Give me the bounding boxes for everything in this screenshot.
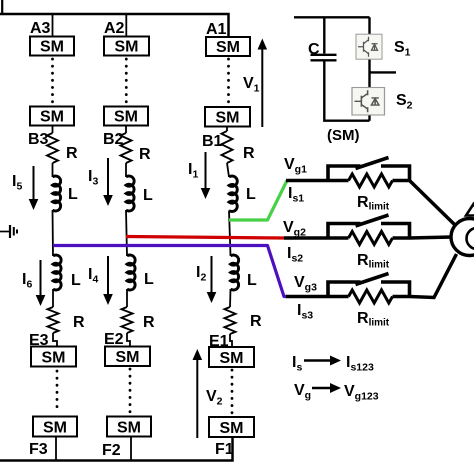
svg-text:SM: SM — [220, 420, 244, 437]
svg-text:I5: I5 — [12, 173, 22, 193]
svg-text:I1: I1 — [188, 161, 198, 181]
dotted chain E3-F3 — [56, 371, 59, 413]
svg-text:L: L — [68, 186, 78, 203]
svg-text:L: L — [144, 271, 154, 288]
current arrow I4 — [107, 256, 109, 296]
submodule SM B2 — [104, 107, 148, 126]
submodule SM E1 — [209, 347, 254, 367]
wire R to L arm1 — [227, 163, 229, 177]
top DC bus — [0, 14, 229, 37]
svg-text:SM: SM — [42, 349, 66, 366]
svg-text:Rlimit: Rlimit — [357, 252, 390, 271]
svg-text:Is123: Is123 — [346, 354, 374, 374]
svg-text:SM: SM — [117, 419, 141, 436]
wire R to E3 — [53, 333, 57, 347]
svg-text:E2: E2 — [104, 331, 124, 348]
wire F2 to bus — [130, 437, 132, 461]
wire A3 drop — [52, 14, 54, 37]
branch3 wire — [286, 254, 457, 298]
svg-text:A2: A2 — [104, 20, 125, 37]
resistor R upper arm3 — [47, 133, 58, 163]
inductor L upper arm2 — [126, 176, 134, 211]
svg-text:R: R — [139, 146, 151, 163]
svg-text:SM: SM — [220, 350, 244, 367]
current arrow I2 — [211, 256, 213, 294]
wire R to L arm3 — [52, 163, 54, 177]
current arrow I1 — [205, 152, 207, 190]
svg-text:A1: A1 — [206, 21, 227, 38]
svg-text:SM: SM — [40, 38, 64, 55]
wire F3 to bus — [55, 437, 57, 461]
IGBT switch S1 — [356, 34, 382, 59]
svg-text:F3: F3 — [29, 441, 48, 458]
wire arm3 midpoint — [52, 210, 55, 256]
svg-text:R: R — [143, 314, 155, 331]
bypass switch S branch1 — [328, 166, 361, 181]
SM detail right leg wires — [368, 17, 370, 120]
svg-text:L: L — [247, 272, 257, 289]
svg-text:Vg: Vg — [294, 382, 311, 402]
wire R to E2 — [127, 333, 130, 347]
phase wire red (arm2 tap to Vg2 node) — [126, 237, 284, 239]
svg-text:Is: Is — [292, 354, 302, 374]
voltage arrow V2 — [196, 358, 198, 438]
svg-text:R: R — [243, 145, 255, 162]
svg-text:F2: F2 — [102, 442, 121, 459]
submodule SM F2 — [107, 417, 151, 437]
submodule SM E2 — [105, 347, 150, 367]
resistor Rlimit branch2 — [349, 232, 393, 245]
machine outer circle — [451, 219, 474, 256]
svg-text:V1: V1 — [243, 75, 260, 95]
dotted chain A2-B2 — [125, 59, 128, 104]
svg-text:Vg1: Vg1 — [284, 156, 307, 176]
svg-text:Vg2: Vg2 — [283, 219, 306, 239]
dotted chain E1-F1 — [231, 370, 234, 414]
svg-text:L: L — [246, 186, 256, 203]
inductor L lower arm1 — [231, 255, 239, 290]
submodule SM A3 — [30, 37, 74, 56]
resistor R lower arm3 — [48, 307, 59, 333]
svg-text:R: R — [250, 313, 262, 330]
wire L to R lower arm1 — [229, 289, 232, 307]
dotted chain E2-F2 — [129, 369, 132, 413]
svg-text:R: R — [66, 145, 78, 162]
branch1 wire — [286, 181, 455, 225]
svg-text:S1: S1 — [394, 39, 411, 59]
resistor Rlimit branch1 — [349, 174, 393, 187]
inductor L lower arm3 — [53, 255, 61, 290]
resistor R lower arm2 — [122, 307, 133, 333]
svg-text:Is2: Is2 — [287, 245, 303, 265]
current arrow I6 — [40, 260, 42, 297]
bypass switch S branch2 — [328, 224, 361, 239]
inductor L upper arm1 — [229, 176, 237, 212]
svg-text:I2: I2 — [196, 264, 206, 284]
svg-text:SM: SM — [43, 419, 67, 436]
wire R to L arm2 — [125, 163, 127, 177]
svg-text:S2: S2 — [396, 92, 413, 112]
IGBT switch S2 — [352, 88, 385, 116]
submodule SM B1 — [205, 107, 250, 127]
wire R to E1 — [230, 334, 232, 347]
svg-text:Is1: Is1 — [288, 185, 304, 205]
svg-text:L: L — [143, 187, 153, 204]
svg-text:A3: A3 — [30, 20, 51, 37]
svg-text:I3: I3 — [88, 168, 98, 188]
bottom DC bus — [0, 437, 233, 461]
svg-text:F1: F1 — [215, 441, 234, 458]
svg-text:L: L — [71, 272, 81, 289]
svg-text:R: R — [73, 314, 85, 331]
svg-text:Vg123: Vg123 — [344, 383, 379, 403]
resistor R upper arm2 — [121, 133, 132, 163]
submodule SM F1 — [209, 417, 254, 437]
legend arrow 2 — [312, 387, 332, 390]
svg-text:Vg3: Vg3 — [294, 274, 317, 294]
top-left bus stub — [1, 0, 3, 14]
svg-text:SM: SM — [115, 38, 139, 55]
legend arrow 1 — [304, 359, 332, 362]
machine inner circle — [467, 228, 474, 249]
wire B3 to R — [52, 126, 54, 134]
inductor L upper arm3 — [53, 176, 61, 211]
svg-text:SM: SM — [114, 108, 138, 125]
wire B1 to R — [226, 127, 228, 132]
wire L to R lower arm2 — [126, 289, 128, 307]
svg-text:SM: SM — [40, 108, 64, 125]
submodule SM E3 — [31, 347, 76, 367]
submodule SM F3 — [33, 417, 77, 437]
svg-text:(SM): (SM) — [327, 127, 360, 144]
resistor Rlimit branch3 — [349, 290, 393, 303]
wire B2 to R — [125, 126, 127, 134]
voltage arrow V1 — [261, 48, 263, 128]
wire arm1 midpoint — [229, 211, 231, 257]
submodule SM A1 — [206, 37, 250, 56]
submodule SM B3 — [30, 107, 74, 126]
resistor R lower arm1 — [225, 307, 236, 334]
svg-text:SM: SM — [216, 109, 240, 126]
svg-text:Rlimit: Rlimit — [357, 194, 390, 213]
bypass switch S branch3 — [328, 282, 361, 297]
ground symbol — [0, 225, 17, 238]
svg-text:SM: SM — [116, 349, 140, 366]
capacitor C leads — [324, 17, 369, 120]
svg-text:Rlimit: Rlimit — [357, 310, 390, 329]
phase wire green (arm1 tap to Vg1 node) — [229, 181, 287, 221]
dotted chain A1-B1 — [227, 59, 230, 105]
svg-text:V2: V2 — [206, 388, 223, 408]
wire arm2 midpoint — [126, 210, 127, 256]
svg-text:B1: B1 — [202, 133, 223, 150]
phase wire purple (arm3 tap to Vg3 node) — [53, 246, 287, 297]
submodule SM A2 — [104, 37, 149, 56]
svg-text:SM: SM — [216, 39, 240, 56]
wire A2 drop — [125, 14, 127, 37]
wire L to R lower arm3 — [52, 289, 54, 307]
svg-text:I6: I6 — [22, 271, 32, 291]
svg-text:C: C — [308, 41, 320, 58]
resistor R upper arm1 — [222, 131, 233, 163]
svg-text:I4: I4 — [88, 266, 98, 286]
current arrow I3 — [107, 158, 109, 197]
capacitor C plates — [311, 54, 337, 56]
SM detail top wire — [294, 16, 370, 18]
branch2 wire — [284, 237, 452, 238]
delta symbol — [466, 204, 474, 216]
wire F1 to bus — [232, 437, 234, 461]
current arrow I5 — [33, 166, 35, 201]
SM detail midpoint tap — [370, 71, 397, 73]
dotted chain A3-B3 — [51, 59, 54, 104]
inductor L lower arm2 — [127, 255, 135, 290]
svg-text:Is3: Is3 — [297, 302, 313, 322]
